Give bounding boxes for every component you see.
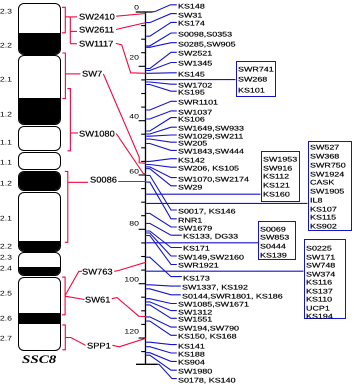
marker label SW1117 bbox=[79, 41, 113, 48]
scale number 100 cM bbox=[119, 277, 138, 282]
linkage scale axis bbox=[145, 12, 147, 364]
wire to SW2521 bbox=[146, 52, 177, 68]
chromosome name SSC8 bbox=[22, 356, 56, 365]
wire to SW1085 bbox=[146, 299, 177, 304]
0 cM top bar bbox=[136, 11, 153, 13]
wire to SW194 bbox=[146, 317, 177, 327]
segment q2.5/q2.6/q2.7 bbox=[18, 277, 61, 351]
wire to SW29 bbox=[146, 169, 177, 186]
boxed marker label KS121 bbox=[263, 182, 290, 188]
marker label SW1037 group bbox=[178, 109, 212, 115]
marker label SW194 group bbox=[178, 325, 239, 331]
marker label S0178 group bbox=[178, 377, 236, 383]
marker label SW1980 group bbox=[178, 368, 212, 374]
marker label SW1345 group bbox=[178, 61, 212, 67]
marker label SW2410 bbox=[79, 14, 115, 21]
marker label KS133 group bbox=[183, 233, 238, 239]
boxed marker label SW1953 bbox=[263, 156, 297, 162]
scale number 40 cM bbox=[119, 114, 138, 119]
band label 2.5 (11) bbox=[0, 291, 12, 296]
boxed marker label IL8 bbox=[310, 197, 322, 203]
wire to SW1312 bbox=[146, 302, 177, 311]
marker label SW149 group bbox=[178, 254, 244, 260]
wire to SW1702 bbox=[146, 82, 177, 84]
wire to S0017 bbox=[146, 175, 177, 210]
wire to KS145 bbox=[146, 72, 177, 75]
boxed marker label SWR750 bbox=[310, 162, 346, 168]
wire to KS173 bbox=[146, 257, 182, 276]
marker label KS904 group bbox=[178, 360, 205, 366]
scale number 0 cM bbox=[119, 4, 138, 9]
marker label KS142 group bbox=[178, 157, 205, 163]
marker label S0144 group bbox=[182, 293, 283, 299]
wire to RNR1 bbox=[146, 182, 177, 219]
marker label KS188 group bbox=[178, 351, 205, 357]
wire SW1080 to axis bbox=[116, 134, 146, 174]
boxed marker label KS101 bbox=[238, 87, 265, 93]
boxed marker label SW374 bbox=[306, 271, 335, 277]
wire to KS142 bbox=[146, 159, 177, 162]
marker label SW1029 group bbox=[178, 133, 243, 139]
marker label KS171 group bbox=[183, 246, 210, 252]
marker label SW29 group bbox=[178, 184, 202, 190]
marker label S0098 group bbox=[178, 31, 232, 37]
band label 2.2 (1) bbox=[0, 43, 12, 48]
marker label SW205 group bbox=[178, 140, 207, 146]
wire to SWR1921 bbox=[146, 236, 177, 265]
wire to SW1980 bbox=[146, 355, 177, 370]
marker label S0285 group bbox=[178, 41, 236, 47]
wire SW1117 to axis bbox=[116, 43, 146, 73]
marker label SW2611 bbox=[79, 27, 114, 34]
wire to SW205 bbox=[146, 139, 177, 142]
marker label SW1337 group bbox=[182, 284, 248, 290]
band label 2.7 (13) bbox=[0, 335, 12, 340]
red interval bracket SW763/SW61 bbox=[62, 277, 65, 315]
marker label SW763 bbox=[82, 269, 113, 276]
boxed marker label KS137 bbox=[306, 288, 333, 294]
wire SW7 to axis bbox=[103, 74, 145, 163]
marker label SW1312 group bbox=[178, 309, 212, 315]
wire to KS148 bbox=[153, 5, 177, 12]
band label 1.1 (5) bbox=[0, 160, 12, 165]
wire to SW149 bbox=[146, 233, 177, 256]
boxed marker label SW853 bbox=[260, 235, 289, 241]
boxed marker label KS902 bbox=[310, 223, 337, 229]
wire S0086 to axis bbox=[118, 181, 146, 183]
wire to SW1551 bbox=[146, 305, 177, 318]
band label 1.2 (3) bbox=[0, 112, 12, 117]
wire to KS106 bbox=[146, 118, 177, 131]
red interval bracket SW7 bbox=[62, 53, 65, 99]
segment q2.3/q2.4 bbox=[18, 252, 61, 276]
marker label KS195 group bbox=[178, 89, 205, 95]
boxed marker label KS139 bbox=[260, 252, 287, 258]
band label 2.6 (12) bbox=[0, 316, 12, 321]
boxed marker label SW1924 bbox=[310, 171, 344, 177]
wire to SW1345 bbox=[146, 63, 177, 71]
marker label SW1085 group bbox=[178, 302, 249, 308]
wire to SW1337 bbox=[146, 285, 181, 286]
wire to KS174 bbox=[146, 22, 177, 36]
wire to SW527 box bbox=[146, 202, 307, 204]
marker label SW1649 group bbox=[178, 125, 244, 131]
wire SW2410 to axis bbox=[116, 14, 146, 17]
red interval bracket SW1080 bbox=[67, 89, 70, 151]
segment p2.1/p1.2 bbox=[18, 55, 61, 125]
marker label SWR1101 group bbox=[178, 99, 218, 105]
wire to S0069 box bbox=[146, 242, 258, 244]
boxed marker label KS116 bbox=[306, 279, 332, 285]
boxed marker label S0444 bbox=[260, 243, 286, 249]
marker label SW1070 group bbox=[178, 176, 249, 182]
boxed marker label SW1905 bbox=[310, 188, 344, 194]
band label 2.2 (8) bbox=[0, 244, 12, 249]
S0225 marker group box bbox=[304, 239, 346, 319]
band label 2.3 (9) bbox=[0, 255, 12, 260]
boxed marker label SW171 bbox=[306, 254, 335, 260]
marker label SW1551 group bbox=[178, 316, 212, 322]
wire to S0178 bbox=[158, 364, 177, 378]
segment q1.2 (black) bbox=[18, 171, 61, 191]
wire to KS133 bbox=[146, 223, 182, 235]
band label 2.4 (10) bbox=[0, 266, 12, 271]
red interval stub SW1080 bbox=[70, 132, 78, 134]
marker label SW1702 group bbox=[178, 82, 212, 88]
segment q1.1 bbox=[18, 152, 61, 171]
marker label KS141 group bbox=[178, 343, 205, 349]
marker label KS150 group bbox=[178, 333, 237, 339]
wire to SW31 bbox=[146, 14, 177, 23]
red interval stub S0086 bbox=[68, 181, 88, 183]
wire to KS171 bbox=[146, 231, 182, 248]
wire to SW1679 bbox=[146, 213, 177, 227]
wire to KS188 bbox=[146, 347, 177, 353]
marker label SW1080 bbox=[79, 131, 115, 138]
wire SW2611 to axis bbox=[116, 23, 146, 30]
boxed marker label SW268 bbox=[238, 76, 267, 82]
boxed marker label CASK bbox=[310, 180, 334, 186]
boxed marker label SW368 bbox=[310, 153, 339, 159]
wire to SW206 bbox=[146, 165, 177, 168]
red interval stub SW7 bbox=[65, 73, 80, 75]
red interval stub SW1117 bbox=[70, 43, 77, 45]
marker label SW2521 group bbox=[178, 50, 212, 56]
red interval bracket SW2611/SW1117 bbox=[69, 17, 71, 44]
wire to SW1070 bbox=[146, 167, 177, 178]
red interval stub SW61 bbox=[65, 296, 84, 299]
wire to S0225 box bbox=[146, 270, 303, 272]
wire to KS150 bbox=[146, 321, 177, 335]
scale number 60 cM bbox=[119, 169, 138, 174]
wire to KS904 bbox=[146, 353, 177, 362]
marker label KS173 group bbox=[183, 275, 210, 281]
band label 1.1 (4) bbox=[0, 140, 12, 145]
boxed marker label SWR741 bbox=[238, 66, 274, 72]
marker label SPP1 bbox=[87, 343, 111, 350]
marker label RNR1 group bbox=[178, 217, 202, 223]
scale tick marks every 5 cM bbox=[141, 25, 145, 27]
wire SW763 to axis bbox=[114, 262, 146, 271]
marker label S0086 bbox=[90, 177, 117, 184]
band label 1.2 (6) bbox=[0, 180, 12, 185]
wire to S0098 bbox=[146, 33, 177, 46]
boxed marker label KS112 bbox=[263, 174, 289, 180]
red interval stub SPP1 bbox=[65, 338, 85, 346]
boxed marker label KS194 bbox=[306, 313, 333, 319]
marker label S0017 group bbox=[178, 208, 236, 214]
band label 2.1 (7) bbox=[0, 216, 12, 221]
red interval stub SW2611 bbox=[70, 30, 77, 32]
marker label KS174 group bbox=[178, 21, 205, 27]
boxed marker label KS107 bbox=[310, 206, 337, 212]
wire to SW1843 bbox=[146, 144, 177, 151]
boxed marker label S0225 bbox=[306, 245, 332, 251]
wire to KS141 bbox=[146, 342, 177, 344]
boxed marker label S0069 bbox=[260, 226, 286, 232]
S0069 marker group box bbox=[258, 221, 296, 260]
marker label KS106 group bbox=[178, 116, 205, 122]
SWR741 marker group box bbox=[236, 61, 276, 97]
wire to S0144 bbox=[146, 289, 181, 295]
wire to SW1953 box bbox=[146, 193, 260, 195]
marker label SW206 group bbox=[178, 165, 239, 171]
boxed marker label KS110 bbox=[306, 296, 332, 302]
boxed marker label UCP1 bbox=[306, 305, 330, 311]
SW527 marker group box bbox=[308, 141, 353, 231]
wire SW61 to axis bbox=[112, 298, 146, 317]
marker label KS148 group bbox=[178, 3, 205, 9]
marker label SW1843 group bbox=[178, 149, 244, 155]
wire to SWR741 box bbox=[146, 79, 235, 81]
130 cM bottom bar bbox=[136, 363, 158, 365]
boxed marker label SW916 bbox=[263, 165, 292, 171]
red interval stub SW763 bbox=[65, 271, 82, 295]
wire to SW1029 bbox=[146, 135, 177, 136]
marker label SW7 bbox=[82, 71, 102, 78]
marker label SW31 group bbox=[178, 12, 202, 18]
red interval bracket S0086 bbox=[65, 171, 68, 242]
wire to SW1649 bbox=[146, 127, 177, 134]
marker label KS145 group bbox=[178, 71, 205, 77]
red interval bracket SW2410 bbox=[62, 7, 65, 33]
p-arm segment p2.3/p2.2 bbox=[18, 3, 61, 55]
marker label SW61 bbox=[85, 297, 110, 304]
marker label SWR1921 group bbox=[178, 263, 219, 269]
red interval bracket SPP1 bbox=[62, 325, 65, 350]
marker label SW1679 group bbox=[178, 225, 212, 231]
scale number 20 cM bbox=[119, 55, 138, 60]
scale number 120 cM bbox=[119, 329, 138, 334]
wire to SW1037 bbox=[146, 111, 177, 119]
band label 2.1 (2) bbox=[0, 77, 12, 82]
band label 2.3 (0) bbox=[0, 9, 12, 14]
wire to S0285 bbox=[146, 43, 177, 48]
boxed marker label KS160 bbox=[263, 191, 290, 197]
wire to SWR1101 bbox=[146, 101, 177, 110]
SW1953 marker group box bbox=[261, 151, 300, 201]
boxed marker label SW527 bbox=[310, 145, 339, 151]
red interval stub SW2410 bbox=[65, 16, 77, 18]
segment q2.1/q2.2 bbox=[18, 192, 61, 251]
scale number 80 cM bbox=[119, 221, 138, 226]
wire SPP1 to axis bbox=[112, 338, 145, 347]
wire to KS195 bbox=[146, 85, 177, 92]
segment p1.1 bbox=[18, 126, 61, 150]
boxed marker label KS115 bbox=[310, 215, 336, 221]
boxed marker label SW748 bbox=[306, 262, 335, 268]
